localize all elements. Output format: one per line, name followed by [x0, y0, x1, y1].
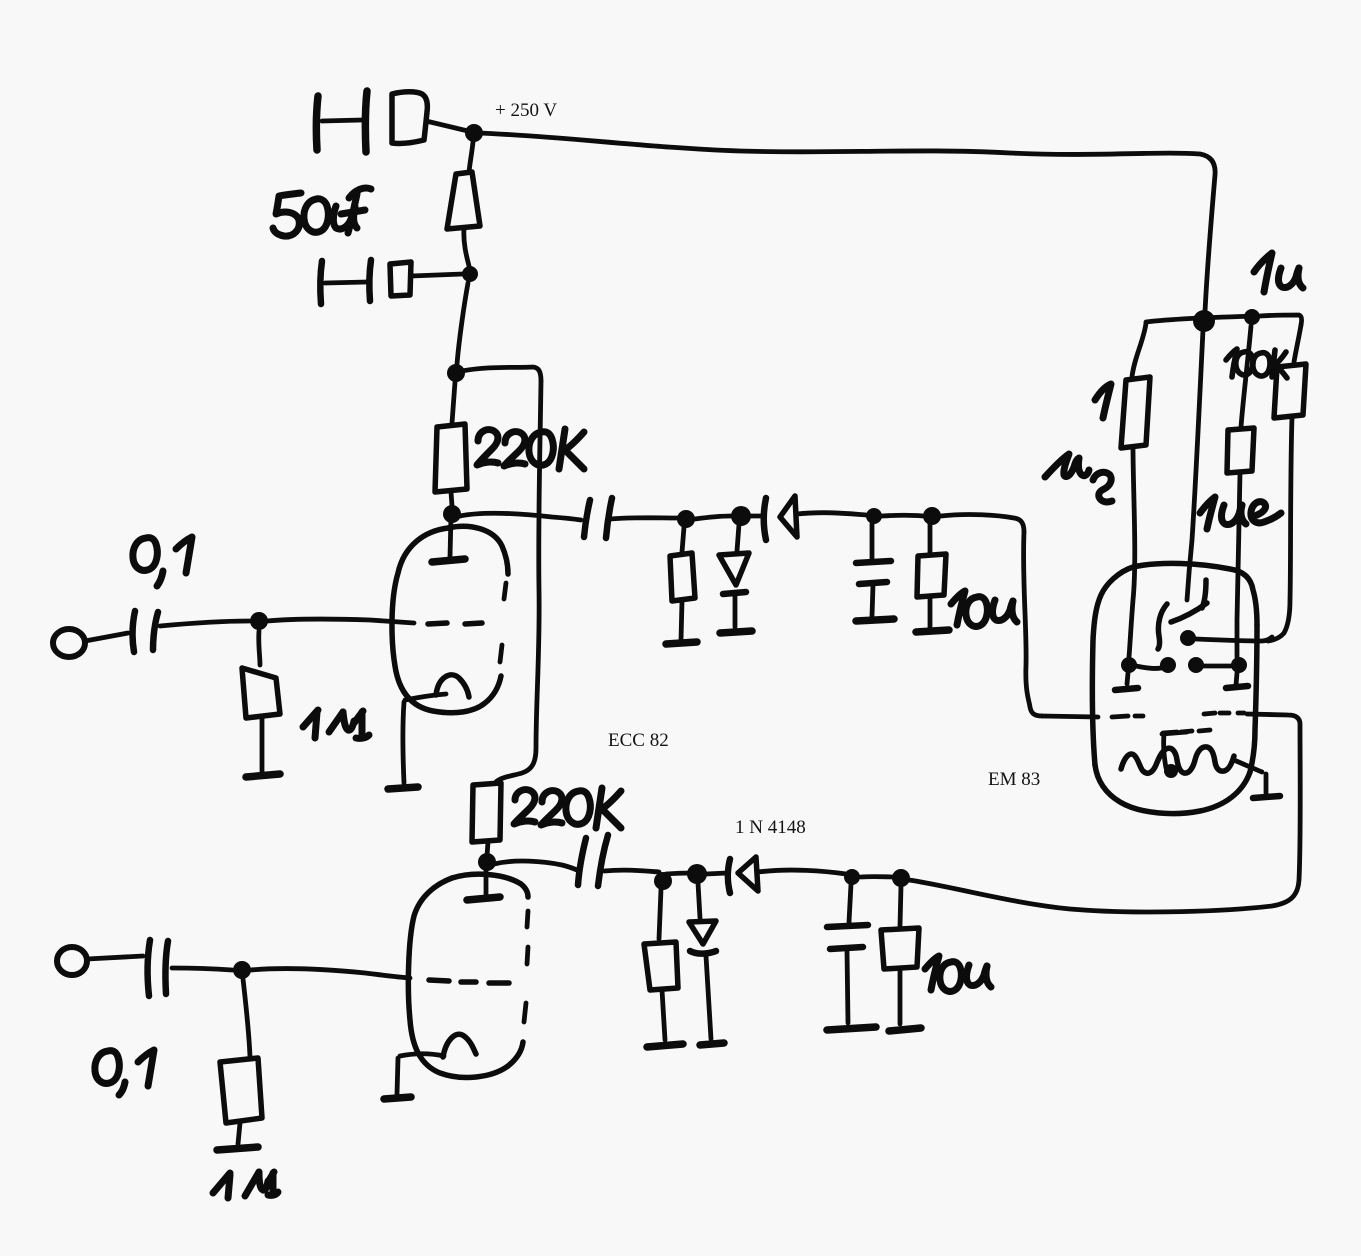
svg-text:+ 250 V: + 250 V	[495, 100, 557, 121]
svg-text:1 N 4148: 1 N 4148	[735, 817, 806, 838]
svg-text:EM 83: EM 83	[988, 769, 1040, 790]
svg-text:ECC 82: ECC 82	[608, 730, 669, 751]
